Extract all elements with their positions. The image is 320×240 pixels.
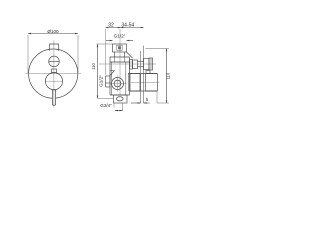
G1/2 dimension arrows xyxy=(106,40,133,42)
escutcheon bottom edge xyxy=(130,90,158,92)
height dim bottom extension line xyxy=(157,102,169,104)
left height dim top extension line xyxy=(97,43,113,45)
neck below top block xyxy=(115,52,125,57)
diverter knob stage 1 xyxy=(130,60,133,70)
body right edge inner line xyxy=(125,62,127,95)
thread hatch mark in top block xyxy=(117,45,122,50)
svg-text:G3/4”: G3/4” xyxy=(100,103,112,108)
left height dim bottom extension line xyxy=(98,97,114,99)
diverter knob axis centerline xyxy=(99,63,156,65)
svg-text:Ø100: Ø100 xyxy=(47,29,59,34)
handle circle xyxy=(45,73,62,90)
escutcheon top edge xyxy=(128,73,158,75)
svg-text:34-54: 34-54 xyxy=(121,23,134,29)
horizontal centerline front view xyxy=(26,73,82,75)
handle hub block xyxy=(128,74,140,92)
svg-text:32: 32 xyxy=(108,23,114,29)
inlet chamfer diagonal xyxy=(110,71,115,76)
body left edge inner line xyxy=(111,62,113,95)
plate back line xyxy=(140,51,142,103)
left height dimension line xyxy=(97,44,99,98)
escutcheon bump xyxy=(146,71,150,74)
body inner rib left xyxy=(114,57,116,62)
diverter knob circle xyxy=(49,56,60,67)
inlet port vertical centerline xyxy=(117,76,119,92)
dimension 5 arrows xyxy=(131,102,150,104)
handle stub xyxy=(52,69,57,73)
extension line left (body rear face) xyxy=(105,29,107,75)
body shoulder diagonal xyxy=(127,52,133,58)
vertical centerline front view xyxy=(53,41,55,108)
lever rod xyxy=(52,90,55,106)
trim plate circle xyxy=(29,49,78,98)
bottom outlet extension line left xyxy=(113,103,115,108)
bottom outlet extension line right xyxy=(122,103,124,111)
top outlet stub front view xyxy=(50,44,59,51)
handle axis centerline xyxy=(131,81,160,83)
extension line left of plate xyxy=(27,35,29,73)
svg-text:G1/2”: G1/2” xyxy=(114,33,126,38)
body right edge xyxy=(129,57,131,95)
top outlet block side view xyxy=(113,44,127,52)
body step line xyxy=(110,61,130,63)
inlet port horizontal centerline xyxy=(110,83,127,85)
inlet port inner circle xyxy=(114,80,121,87)
diverter knob collar xyxy=(144,59,150,70)
body inner rib right xyxy=(124,57,126,62)
height dim top extension line xyxy=(146,48,170,50)
svg-text:110: 110 xyxy=(91,62,96,69)
handle knob block xyxy=(146,74,158,92)
dimension Ø100 line xyxy=(28,33,78,35)
diverter shaft through wall xyxy=(138,61,144,66)
extension line right of plate xyxy=(77,35,79,73)
side view: chained dimension line 32 / 34-54 xyxy=(106,27,144,29)
handle crosshair centerline xyxy=(45,80,63,82)
body centerline vertical xyxy=(119,29,121,95)
diverter knob cap xyxy=(149,58,153,70)
wall line xyxy=(143,46,145,104)
inlet port outer circle xyxy=(112,78,124,90)
bottom outlet block xyxy=(114,95,128,103)
knob extension line down xyxy=(156,91,158,103)
body left edge xyxy=(109,57,111,95)
body step near pipe xyxy=(110,70,115,72)
body shoulder line xyxy=(110,56,130,58)
svg-text:5: 5 xyxy=(146,97,149,102)
bottom outlet dimension arrow xyxy=(115,110,123,112)
diverter slot line xyxy=(49,60,60,62)
diverter knob stage 2 xyxy=(133,60,138,69)
rear inlet pipe xyxy=(106,76,111,87)
bottom outlet oval xyxy=(117,97,124,101)
svg-text:G1/2”: G1/2” xyxy=(98,75,103,87)
body bottom line xyxy=(110,94,130,96)
height dimension line xyxy=(166,49,168,104)
svg-text:110: 110 xyxy=(166,72,171,79)
